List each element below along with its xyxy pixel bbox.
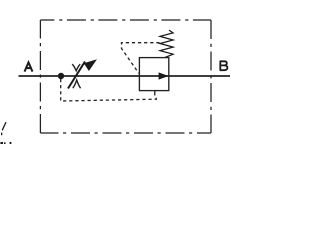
port A label [25,62,33,71]
junction node (pilot take-off) [58,73,64,79]
clipped glyph fragment (left margin text) [2,122,6,130]
pilot line from downstream of throttle to spring side (dashed) [122,43,160,73]
pilot stub into compensator bottom [154,91,156,96]
clipped glyph fragments (bottom-left margin text) [0,142,11,144]
main flow line A to B [19,75,231,77]
spring (compensator setting) [160,30,173,57]
pilot line from upstream node to compensator bottom (dashed) [61,79,157,101]
port B label [220,61,228,70]
flow arrow inside compensator [159,72,169,79]
enclosure boundary (dash-dot assembly box) [40,20,211,133]
adjustable throttle (measuring orifice) arcs [72,64,80,88]
pressure compensator valve body [139,58,168,91]
adjustment arrow through throttle [68,59,97,88]
